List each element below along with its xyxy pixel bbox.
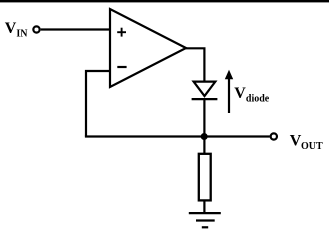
svg-text:V: V <box>290 132 302 149</box>
ground <box>189 213 221 227</box>
op-amp minus input marker <box>117 66 126 68</box>
Vdiode arrow <box>225 70 233 113</box>
wire VIN to op-amp + input <box>41 28 111 30</box>
node junction dot <box>201 133 208 140</box>
node VIN label <box>5 20 28 40</box>
svg-text:IN: IN <box>16 29 28 40</box>
svg-text:V: V <box>234 85 246 102</box>
svg-text:V: V <box>5 20 17 37</box>
wire node to resistor <box>203 138 205 153</box>
op-amp plus input marker <box>117 28 126 37</box>
wire feedback from op-amp minus input <box>86 71 111 137</box>
wire resistor to ground <box>203 201 205 214</box>
wire op-amp output to diode <box>185 48 204 82</box>
input terminal (open circle) <box>33 26 39 32</box>
node VOUT label <box>290 132 323 152</box>
top border <box>0 0 329 2</box>
svg-text:diode: diode <box>246 94 270 105</box>
op-amp U1 <box>110 9 186 87</box>
resistor R1 <box>199 154 211 201</box>
diode D1 <box>192 82 218 100</box>
svg-text:OUT: OUT <box>301 141 323 152</box>
wire output rail <box>85 135 270 137</box>
wire diode to output node <box>203 99 205 136</box>
output terminal (open circle) <box>271 133 277 139</box>
Vdiode label <box>234 85 270 105</box>
